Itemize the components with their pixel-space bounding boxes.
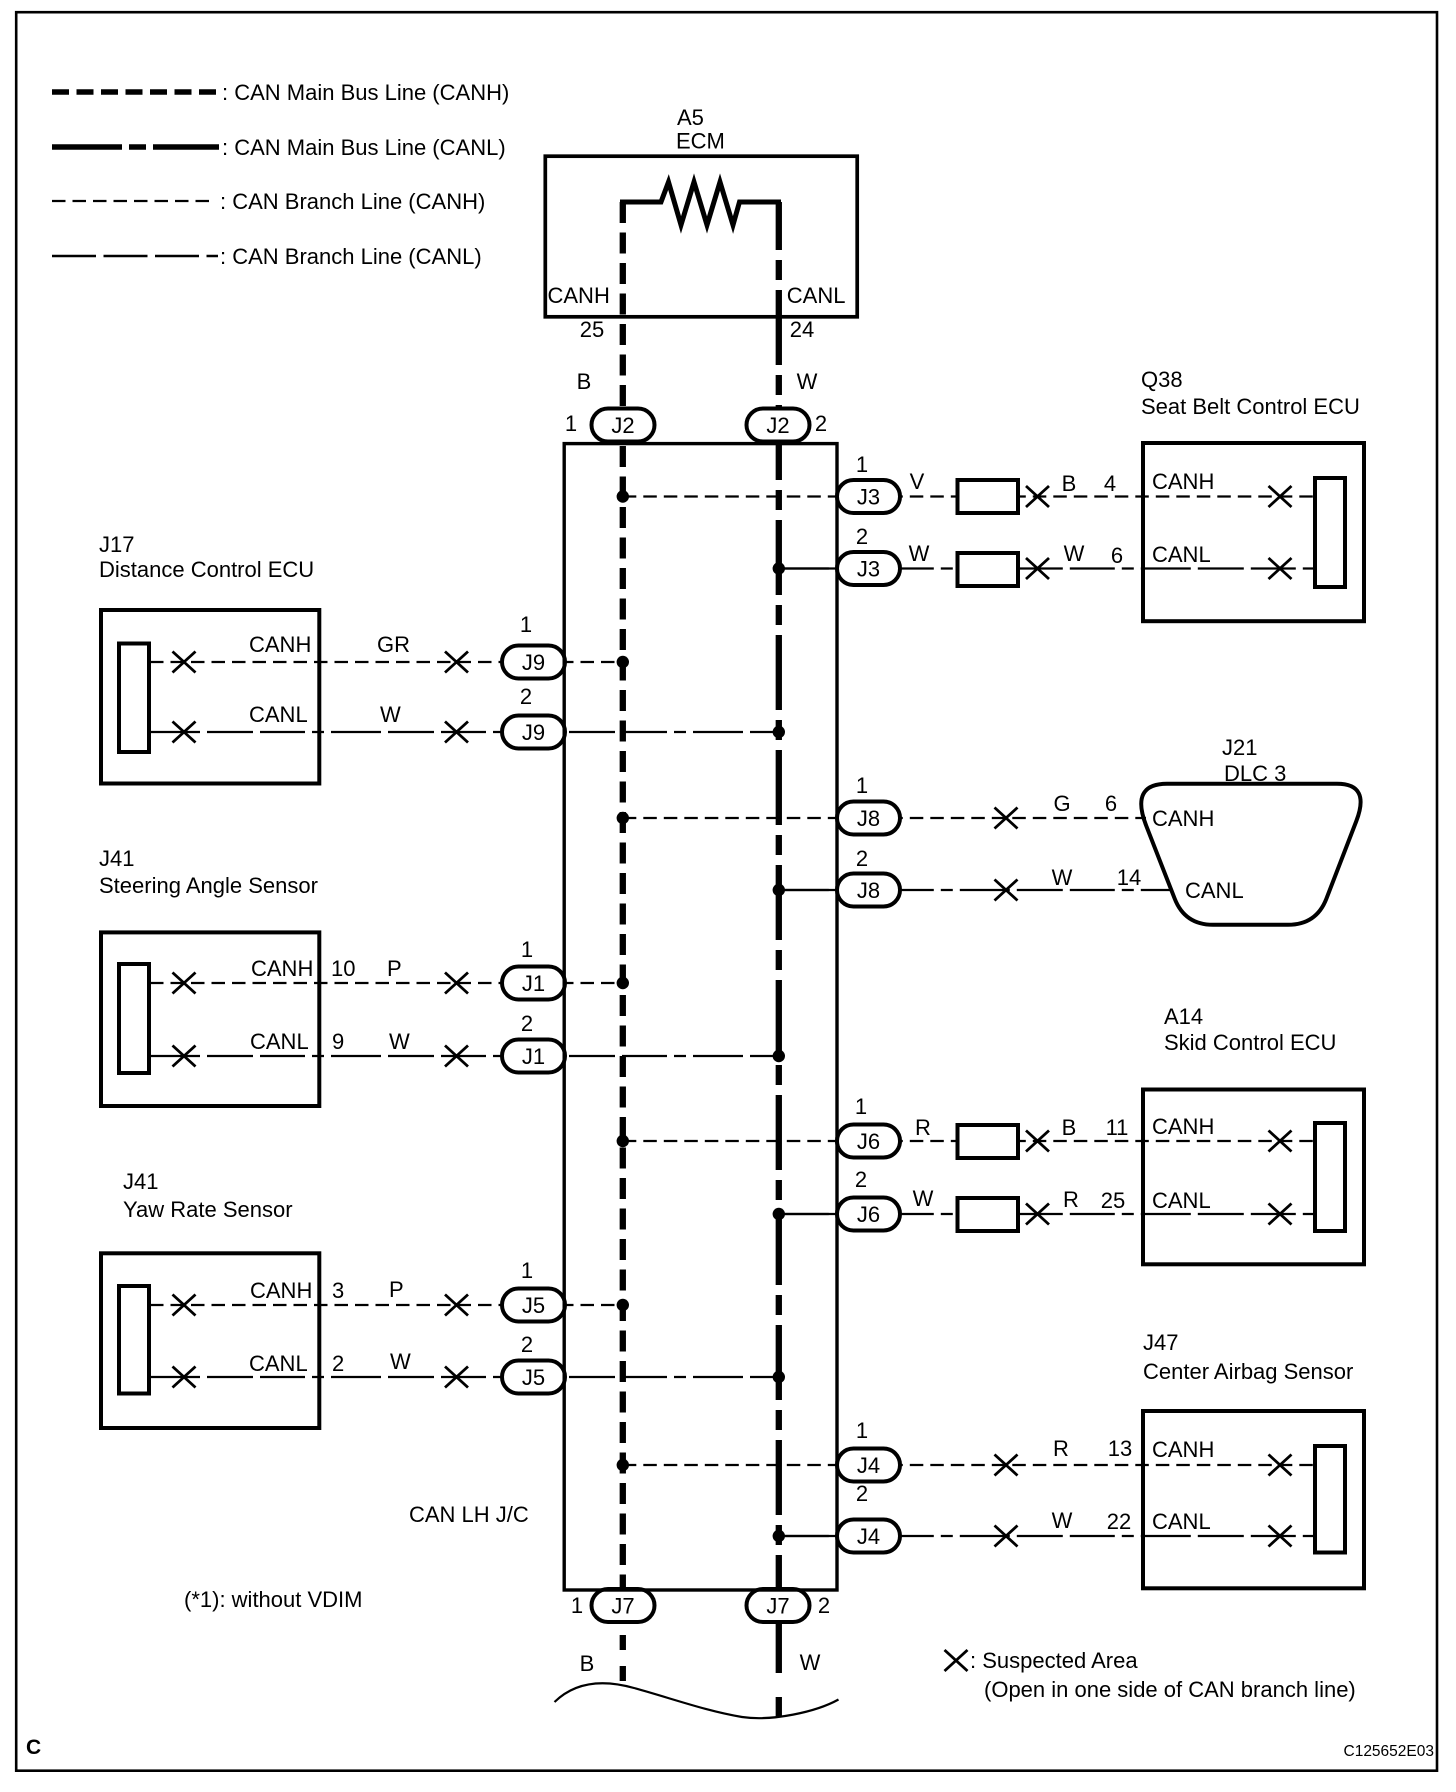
svg-text:J3: J3 — [857, 557, 880, 582]
wire J6 pin2 CANL branch (bus to A14) — [779, 1213, 1313, 1215]
svg-text:J7: J7 — [611, 1594, 634, 1619]
svg-text:W: W — [1052, 1508, 1073, 1533]
svg-text:GR: GR — [377, 632, 410, 657]
svg-text:: Suspected Area: : Suspected Area — [970, 1648, 1138, 1673]
svg-text:1: 1 — [856, 773, 868, 798]
svg-text:B: B — [580, 1651, 595, 1676]
node J9-1 on CANH bus — [617, 656, 629, 668]
svg-text:J41: J41 — [99, 846, 134, 871]
suspected-area X on yaw CANH wire — [445, 1295, 468, 1316]
svg-text:B: B — [1062, 471, 1077, 496]
junction connector J6 pin1 — [837, 1125, 900, 1158]
CANH bus continuation below J7 — [620, 1635, 626, 1681]
svg-text:J3: J3 — [857, 485, 880, 510]
node J8-2 on CANL bus — [773, 884, 785, 896]
ECU A14 box — [1143, 1090, 1364, 1265]
suspected-area X on SAS CANH internal — [173, 973, 196, 994]
wire J1 pin1 CANH branch (SAS to bus) — [150, 982, 623, 984]
node J4-1 on CANH bus — [617, 1459, 629, 1471]
svg-text:W: W — [390, 1349, 411, 1374]
suspected-area X on yaw CANL internal — [173, 1367, 196, 1388]
ECU A5 ECM box — [545, 156, 857, 317]
svg-text:J2: J2 — [611, 413, 634, 438]
legend CAN Branch Line (CANL) sample line — [52, 255, 218, 257]
node J1-1 on CANH bus — [617, 977, 629, 989]
svg-text:CANL: CANL — [250, 1029, 309, 1054]
wire J8 pin1 CANH branch (bus to DLC3) — [623, 817, 1146, 819]
svg-text:W: W — [1052, 865, 1073, 890]
svg-text:J21: J21 — [1222, 735, 1257, 760]
node J6-2 on CANL bus — [773, 1208, 785, 1220]
junction connector J2 pin1 — [592, 409, 655, 442]
suspected-area X on Q38 CANH internal — [1269, 486, 1292, 507]
J41 steering angle sensor box — [101, 932, 319, 1106]
suspected-area X on J17 CANL wire — [445, 722, 468, 743]
svg-text:CANH: CANH — [251, 956, 313, 981]
svg-text:1: 1 — [520, 612, 532, 637]
svg-text:11: 11 — [1106, 1115, 1129, 1140]
suspected-area X on SAS CANL wire — [445, 1046, 468, 1067]
CAN LH J/C junction box — [564, 444, 837, 1590]
svg-text:ECM: ECM — [676, 129, 725, 154]
wire J9 pin1 CANH branch (J17 to bus) — [150, 661, 623, 663]
svg-text:J1: J1 — [522, 971, 545, 996]
A14 internal connector — [1315, 1123, 1345, 1231]
J17 internal connector — [119, 644, 149, 753]
svg-text:3: 3 — [332, 1278, 344, 1303]
svg-text:Center Airbag Sensor: Center Airbag Sensor — [1143, 1359, 1353, 1384]
wire stub J4-2 node to oval — [779, 1535, 840, 1537]
connector rect on Q38 CANL branch — [958, 553, 1019, 586]
svg-text:1: 1 — [856, 1418, 868, 1443]
svg-text:W: W — [909, 541, 930, 566]
svg-text:G: G — [1053, 791, 1070, 816]
svg-text:2: 2 — [332, 1351, 344, 1376]
legend CAN Main Bus Line (CANL) sample line — [52, 144, 219, 150]
J47 internal connector — [1315, 1446, 1345, 1553]
junction connector J4 pin2 — [837, 1520, 900, 1553]
J47 box — [1143, 1411, 1364, 1588]
suspected-area X on A14 CANH wire — [1026, 1131, 1049, 1152]
svg-text:CANL: CANL — [1152, 1509, 1211, 1534]
wire stub J6-2 node to oval — [779, 1213, 840, 1215]
suspected-area X on yaw CANH internal — [173, 1295, 196, 1316]
node J9-2 on CANL bus — [773, 726, 785, 738]
svg-text:: CAN Branch Line (CANL): : CAN Branch Line (CANL) — [220, 244, 482, 269]
suspected-area X on Q38 CANL wire — [1026, 558, 1049, 579]
svg-text:14: 14 — [1117, 865, 1141, 890]
svg-text:W: W — [380, 702, 401, 727]
svg-text:W: W — [800, 1650, 821, 1675]
svg-text:J41: J41 — [123, 1169, 158, 1194]
legend CAN Main Bus Line (CANH) sample line — [52, 89, 219, 95]
suspected-area X on SAS CANL internal — [173, 1046, 196, 1067]
junction connector J9 pin1 — [502, 646, 565, 679]
wire J4 pin2 CANL branch (bus to J47) — [779, 1535, 1313, 1537]
svg-text:J47: J47 — [1143, 1330, 1178, 1355]
svg-text:W: W — [389, 1029, 410, 1054]
svg-text:R: R — [915, 1115, 931, 1140]
suspected-area X on J47 CANL internal — [1269, 1526, 1292, 1547]
node J1-2 on CANL bus — [773, 1050, 785, 1062]
svg-text:CANH: CANH — [548, 283, 610, 308]
svg-text:J1: J1 — [522, 1044, 545, 1069]
svg-text:6: 6 — [1105, 791, 1117, 816]
svg-text:CAN LH J/C: CAN LH J/C — [409, 1502, 529, 1527]
svg-text:2: 2 — [815, 411, 827, 436]
wire J3 pin1 CANH branch (bus to Q38) — [623, 495, 1313, 497]
svg-text:2: 2 — [856, 524, 868, 549]
node J5-1 on CANH bus — [617, 1299, 629, 1311]
svg-text:Yaw Rate Sensor: Yaw Rate Sensor — [123, 1197, 293, 1222]
terminating resistor inside ECM — [620, 182, 781, 225]
junction connector J5 pin2 — [502, 1361, 565, 1394]
svg-text:2: 2 — [520, 684, 532, 709]
junction connector J8 pin2 — [837, 874, 900, 907]
svg-text:1: 1 — [855, 1094, 867, 1119]
svg-text:Q38: Q38 — [1141, 367, 1183, 392]
wire J3 pin2 CANL branch (bus to Q38) — [779, 567, 1313, 569]
CAN main bus line CANH (vertical, thick dashed) — [620, 202, 626, 1590]
junction connector J8 pin1 — [837, 802, 900, 835]
suspected-area X on J17 CANH wire — [445, 652, 468, 673]
svg-text:P: P — [387, 956, 402, 981]
ECU Q38 box — [1143, 443, 1364, 621]
wire J4 pin1 CANH branch (bus to J47) — [623, 1464, 1313, 1466]
svg-text:: CAN Main Bus Line (CANH): : CAN Main Bus Line (CANH) — [222, 80, 509, 105]
svg-text:1: 1 — [521, 937, 533, 962]
svg-text:J6: J6 — [857, 1129, 880, 1154]
junction connector J4 pin1 — [837, 1449, 900, 1482]
node J4-2 on CANL bus — [773, 1530, 785, 1542]
wire J1 pin2 CANL branch (SAS to bus) — [150, 1055, 779, 1057]
svg-text:25: 25 — [1101, 1188, 1125, 1213]
svg-text:J17: J17 — [99, 532, 134, 557]
svg-text:Seat Belt Control ECU: Seat Belt Control ECU — [1141, 394, 1360, 419]
svg-text:22: 22 — [1107, 1509, 1131, 1534]
node J3-1 on CANH bus — [617, 490, 629, 502]
svg-text:CANL: CANL — [787, 283, 846, 308]
svg-text:CANL: CANL — [1152, 1188, 1211, 1213]
wire J5 pin1 CANH branch (yaw sensor to bus) — [150, 1304, 623, 1306]
svg-text:4: 4 — [1104, 471, 1116, 496]
svg-text:J5: J5 — [522, 1293, 545, 1318]
svg-text:CANH: CANH — [1152, 469, 1214, 494]
svg-text:J9: J9 — [522, 720, 545, 745]
connector rect on A14 CANH branch — [958, 1125, 1019, 1158]
svg-text:Distance Control ECU: Distance Control ECU — [99, 557, 314, 582]
junction connector J1 pin2 — [502, 1040, 565, 1073]
harness break wavy line — [555, 1683, 839, 1718]
svg-text:C: C — [26, 1736, 41, 1759]
svg-text:A14: A14 — [1164, 1004, 1203, 1029]
svg-text:W: W — [797, 369, 818, 394]
svg-text:CANH: CANH — [1152, 1114, 1214, 1139]
suspected-area X on J47 CANH internal — [1269, 1455, 1292, 1476]
svg-text:2: 2 — [856, 846, 868, 871]
CANL bus continuation below J7 — [776, 1623, 782, 1717]
svg-text:1: 1 — [856, 452, 868, 477]
legend suspected area X symbol — [945, 1650, 968, 1671]
wire stub J8-2 node to oval — [779, 889, 840, 891]
node J5-2 on CANL bus — [773, 1371, 785, 1383]
svg-text:CANL: CANL — [1152, 542, 1211, 567]
J41 yaw rate sensor box — [101, 1253, 319, 1428]
svg-text:6: 6 — [1111, 543, 1123, 568]
svg-text:: CAN Main Bus Line (CANL): : CAN Main Bus Line (CANL) — [222, 135, 506, 160]
svg-text:CANH: CANH — [1152, 806, 1214, 831]
svg-text:1: 1 — [565, 411, 577, 436]
CAN main bus line CANL (vertical, thick dash-dot) — [776, 202, 782, 1590]
svg-text:1: 1 — [521, 1258, 533, 1283]
junction connector J3 pin1 — [837, 480, 900, 513]
svg-text:13: 13 — [1108, 1436, 1132, 1461]
svg-text:CANL: CANL — [249, 702, 308, 727]
svg-text:R: R — [1053, 1436, 1069, 1461]
junction connector J7 pin2 — [747, 1589, 810, 1622]
svg-text:J6: J6 — [857, 1202, 880, 1227]
junction connector J9 pin2 — [502, 716, 565, 749]
suspected-area X on J47 CANH wire — [995, 1455, 1018, 1476]
suspected-area X on A14 CANH internal — [1269, 1131, 1292, 1152]
wire J6 pin1 CANH branch (bus to A14) — [623, 1140, 1313, 1142]
suspected-area X on DLC3 CANH wire — [995, 808, 1018, 829]
svg-text:9: 9 — [332, 1029, 344, 1054]
svg-text:(Open in one side of CAN branc: (Open in one side of CAN branch line) — [984, 1677, 1356, 1702]
suspected-area X on J17 CANL internal — [173, 722, 196, 743]
svg-text:2: 2 — [856, 1481, 868, 1506]
wire J9 pin2 CANL branch (J17 to bus) — [150, 731, 779, 733]
svg-text:P: P — [389, 1277, 404, 1302]
svg-text:2: 2 — [818, 1593, 830, 1618]
DLC3 trapezoid outline — [1141, 784, 1360, 925]
Q38 internal connector — [1315, 478, 1345, 587]
svg-text:J9: J9 — [522, 650, 545, 675]
J41 SAS internal connector — [119, 964, 149, 1073]
svg-text:J8: J8 — [857, 878, 880, 903]
svg-text:25: 25 — [580, 317, 604, 342]
svg-text:CANL: CANL — [249, 1351, 308, 1376]
svg-text:C125652E03: C125652E03 — [1344, 1743, 1435, 1760]
node J3-2 on CANL bus — [773, 562, 785, 574]
svg-text:Skid Control ECU: Skid Control ECU — [1164, 1030, 1336, 1055]
svg-text:CANL: CANL — [1185, 878, 1244, 903]
suspected-area X on Q38 CANH wire — [1026, 486, 1049, 507]
node J6-1 on CANH bus — [617, 1135, 629, 1147]
junction connector J2 pin2 — [747, 409, 810, 442]
junction connector J5 pin1 — [502, 1289, 565, 1322]
junction connector J6 pin2 — [837, 1198, 900, 1231]
svg-text:J8: J8 — [857, 806, 880, 831]
svg-text:CANH: CANH — [1152, 1437, 1214, 1462]
suspected-area X on J47 CANL wire — [995, 1526, 1018, 1547]
svg-text:W: W — [913, 1186, 934, 1211]
svg-text:J5: J5 — [522, 1365, 545, 1390]
svg-text:(*1): without VDIM: (*1): without VDIM — [184, 1587, 363, 1612]
svg-text:B: B — [1062, 1115, 1077, 1140]
junction connector J1 pin1 — [502, 967, 565, 1000]
legend CAN Branch Line (CANH) sample line — [52, 200, 215, 202]
svg-text:R: R — [1063, 1187, 1079, 1212]
svg-text:CANH: CANH — [249, 632, 311, 657]
suspected-area X on yaw CANL wire — [445, 1367, 468, 1388]
svg-text:A5: A5 — [677, 105, 704, 130]
svg-text:J4: J4 — [857, 1524, 880, 1549]
connector rect on Q38 CANH branch — [958, 480, 1019, 513]
svg-text:2: 2 — [521, 1332, 533, 1357]
svg-text:Steering Angle Sensor: Steering Angle Sensor — [99, 873, 318, 898]
suspected-area X on A14 CANL wire — [1026, 1204, 1049, 1225]
junction connector J3 pin2 — [837, 552, 900, 585]
svg-text:B: B — [577, 369, 592, 394]
svg-text:J2: J2 — [766, 413, 789, 438]
suspected-area X on J17 CANH internal — [173, 652, 196, 673]
suspected-area X on A14 CANL internal — [1269, 1204, 1292, 1225]
suspected-area X on SAS CANH wire — [445, 973, 468, 994]
svg-text:J7: J7 — [766, 1594, 789, 1619]
junction connector J7 pin1 — [592, 1589, 655, 1622]
suspected-area X on Q38 CANL internal — [1269, 558, 1292, 579]
svg-text:1: 1 — [571, 1593, 583, 1618]
svg-text:2: 2 — [521, 1011, 533, 1036]
svg-text:10: 10 — [331, 956, 355, 981]
ECU J17 box — [101, 610, 319, 784]
svg-text:J4: J4 — [857, 1453, 880, 1478]
node J8-1 on CANH bus — [617, 812, 629, 824]
connector rect on A14 CANL branch — [958, 1198, 1019, 1231]
wire J8 pin2 CANL branch (bus to DLC3) — [779, 889, 1172, 891]
wire stub J3-2 node to oval — [779, 567, 840, 569]
svg-text:24: 24 — [790, 317, 814, 342]
suspected-area X on DLC3 CANL wire — [995, 880, 1018, 901]
svg-text:V: V — [910, 469, 925, 494]
svg-text:CANH: CANH — [250, 1278, 312, 1303]
svg-text:: CAN Branch Line (CANH): : CAN Branch Line (CANH) — [220, 189, 485, 214]
svg-text:W: W — [1064, 541, 1085, 566]
svg-text:2: 2 — [855, 1167, 867, 1192]
J41 yaw internal connector — [119, 1286, 149, 1394]
wire J5 pin2 CANL branch (yaw sensor to bus) — [150, 1376, 779, 1378]
